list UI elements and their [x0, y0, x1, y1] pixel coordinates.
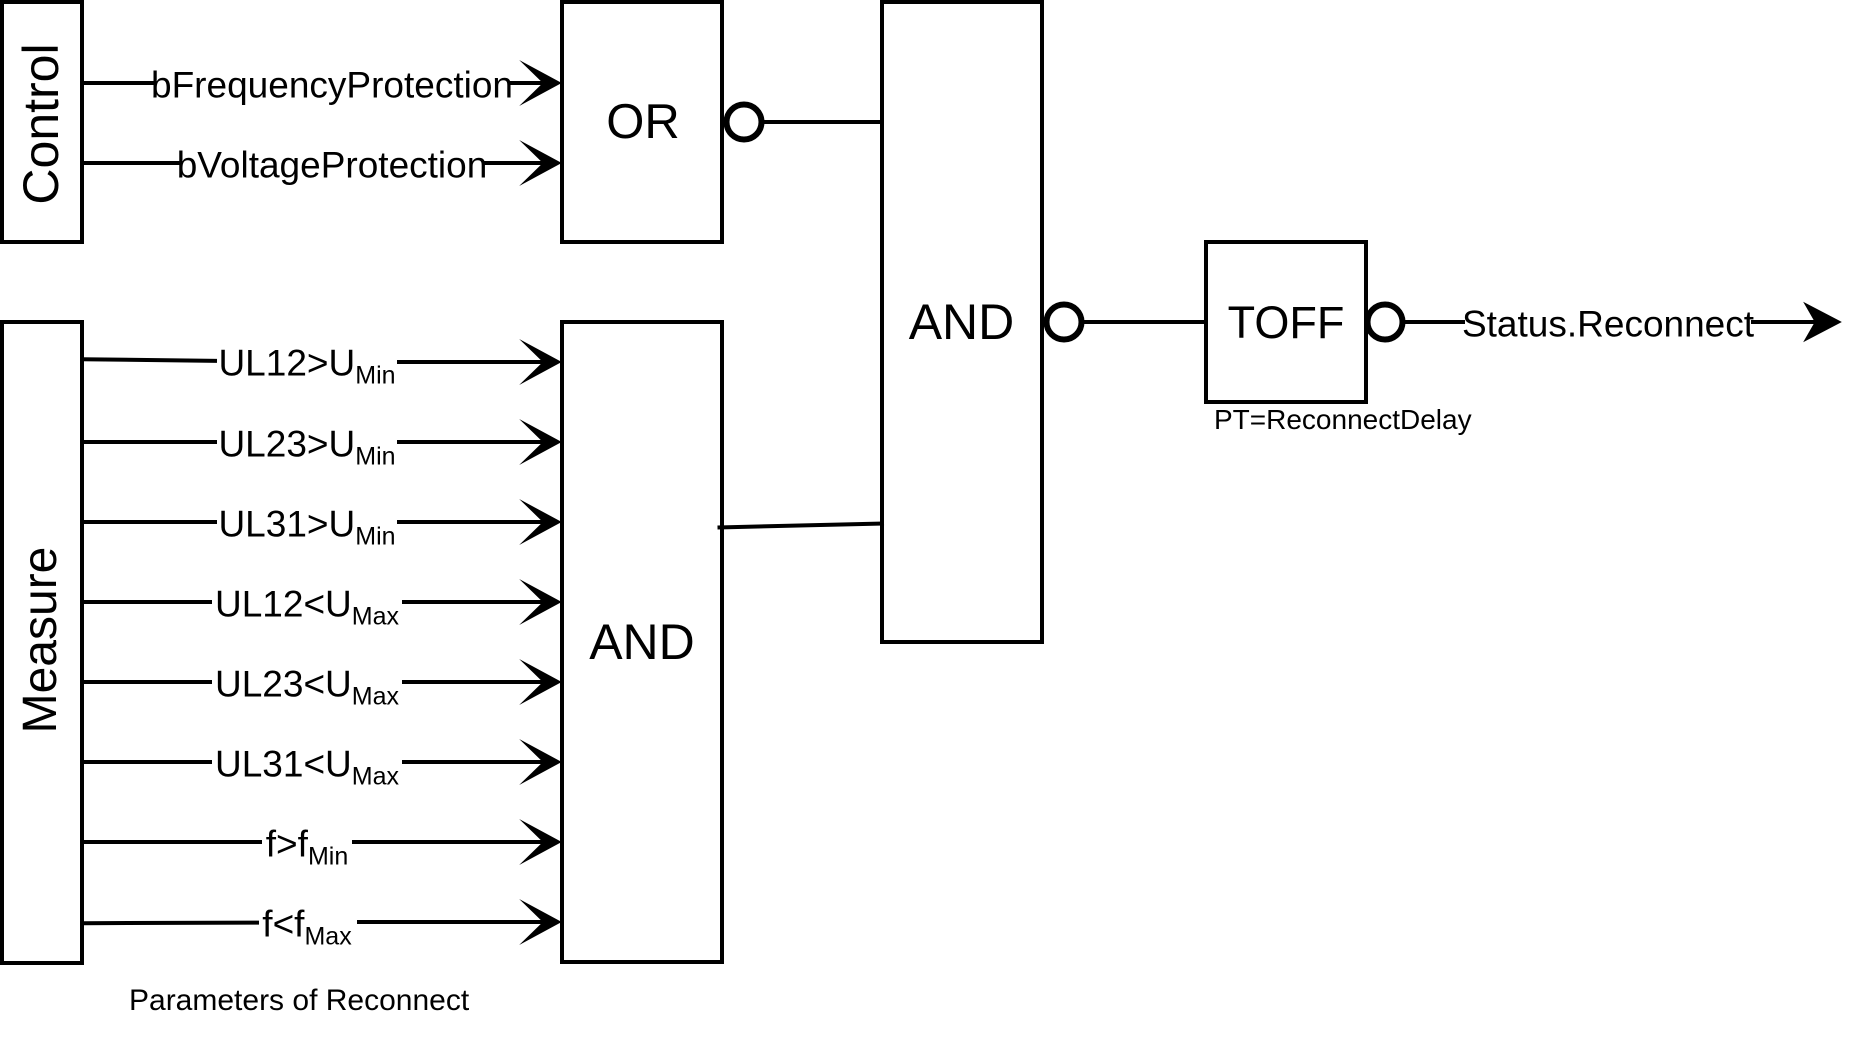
net label bFrequencyProtection: [151, 67, 513, 104]
label Measure: [17, 547, 65, 734]
inversion bubble TOFF output: [1368, 305, 1403, 340]
wire UL31<UMax (Measure to AND input 6): [82, 760, 546, 764]
arrowhead AND input 7: [528, 826, 559, 859]
net label bVoltageProtection: [177, 147, 488, 184]
gate AND2 (8-input AND): [562, 322, 722, 962]
net label UL12<UMax: [215, 586, 399, 623]
wire bFrequencyProtection (Control to OR input 1): [82, 81, 546, 85]
arrowhead AND input 2: [528, 426, 559, 459]
net label f<fMax: [262, 906, 351, 943]
wire UL23<UMax (Measure to AND input 5): [82, 680, 546, 684]
net label UL31>UMin: [218, 506, 395, 543]
block Control: [2, 2, 82, 242]
gate OR: [562, 2, 722, 242]
arrowhead AND input 6: [528, 746, 559, 779]
wire OR output to AND1 (node after inversion bubble): [762, 120, 884, 124]
wire UL31>UMin (Measure to AND input 3): [82, 520, 546, 524]
wire TOFF output to Status.Reconnect arrow: [1403, 320, 1817, 324]
label OR: [606, 98, 680, 146]
wire AND2 output to AND1 input: [718, 524, 885, 528]
net label UL31<UMax: [215, 746, 399, 783]
net label UL23<UMax: [215, 666, 399, 703]
wire UL12>UMin (Measure to AND input 1): [82, 359, 546, 362]
block TOFF timer: [1206, 242, 1366, 402]
arrowhead AND input 5: [528, 666, 559, 699]
net label Status.Reconnect: [1462, 306, 1754, 343]
wire UL23>UMin (Measure to AND input 2): [82, 440, 546, 444]
wire UL12<UMax (Measure to AND input 4): [82, 600, 546, 604]
arrowhead AND input 3: [528, 506, 559, 539]
wire AND1 output to TOFF input: [1082, 320, 1208, 324]
net label f>fMin: [266, 826, 348, 863]
caption Parameters of Reconnect: [129, 986, 469, 1016]
arrowhead OR input 2: [528, 147, 559, 180]
wire f>fMin (Measure to AND input 7): [82, 840, 546, 844]
wire f<fMax (Measure to AND input 8): [82, 922, 546, 923]
label AND1: [909, 298, 1015, 346]
block Measure: [2, 322, 82, 963]
gate AND1 (main AND): [882, 2, 1042, 642]
label TOFF: [1228, 299, 1345, 347]
arrowhead AND input 1: [528, 346, 559, 379]
inversion bubble OR output: [727, 105, 762, 140]
arrowhead AND input 4: [528, 586, 559, 619]
label AND2: [589, 618, 695, 666]
arrowhead AND input 8: [528, 906, 559, 939]
net label UL12>UMin: [218, 345, 395, 382]
inversion bubble AND1 output: [1047, 305, 1082, 340]
arrowhead Status.Reconnect output: [1807, 306, 1839, 339]
arrowhead OR input 1: [528, 67, 559, 100]
net label UL23>UMin: [218, 426, 395, 463]
wire bVoltageProtection (Control to OR input 2): [82, 161, 546, 165]
label Control: [17, 43, 65, 204]
parameter label PT=ReconnectDelay: [1214, 406, 1472, 434]
